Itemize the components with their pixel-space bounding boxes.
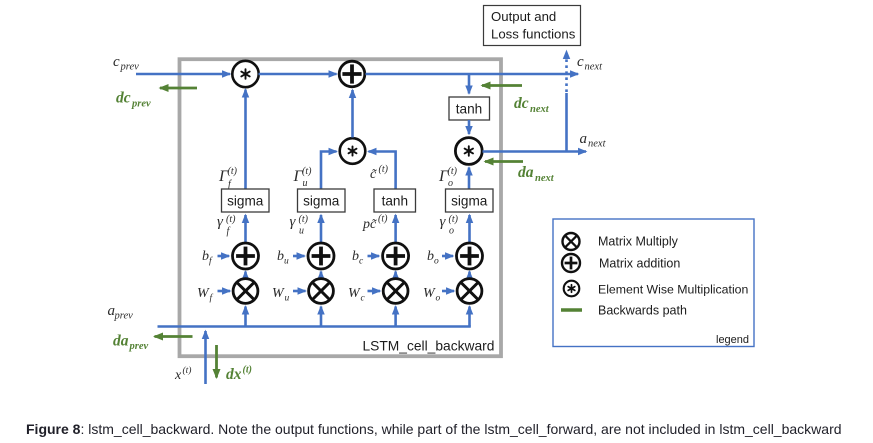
svg-text:γ(t)f: γ(t)f bbox=[217, 214, 236, 237]
cell box LSTM_cell_backward border bbox=[180, 59, 502, 356]
svg-text:sigma: sigma bbox=[303, 194, 340, 209]
box tanh (output path) bbox=[449, 97, 490, 120]
svg-text:c̃(t): c̃(t) bbox=[370, 164, 389, 182]
wire add_c up to tanh_c bbox=[394, 215, 397, 243]
legend backwards path symbol bbox=[561, 308, 582, 312]
legend box bbox=[553, 219, 754, 347]
wire sigma_f up to forget multiply bbox=[244, 90, 247, 190]
svg-text:tanh: tanh bbox=[456, 102, 482, 117]
wire W_u into multiply node bbox=[293, 290, 306, 293]
op-amp element-wise multiply node (forget) bbox=[232, 61, 258, 87]
svg-text:Wc: Wc bbox=[348, 286, 366, 304]
wire mult_c up to add_c bbox=[394, 272, 397, 279]
wire c_next branch down to a_next line bbox=[565, 93, 568, 152]
op-amp matrix multiply node W_f bbox=[233, 279, 258, 304]
wire b_f into add node bbox=[218, 255, 230, 258]
svg-text:Γ(t)f: Γ(t)f bbox=[218, 166, 238, 190]
legend matrix multiply symbol bbox=[563, 233, 580, 250]
backwards path arrow da_next bbox=[485, 160, 523, 163]
backwards path arrow da_prev bbox=[155, 335, 193, 338]
svg-text:sigma: sigma bbox=[227, 194, 264, 209]
wire tanh_c up and into middle multiply bbox=[369, 152, 396, 190]
legend matrix addition symbol bbox=[562, 254, 580, 272]
wire a line up into mult_o bbox=[468, 307, 471, 327]
svg-text:sigma: sigma bbox=[451, 194, 488, 209]
wire b_u into add node bbox=[293, 255, 305, 258]
op-amp matrix addition node b_o bbox=[457, 243, 483, 269]
svg-text:γ(t)o: γ(t)o bbox=[440, 214, 459, 237]
op-amp matrix multiply node W_c bbox=[383, 279, 408, 304]
svg-text:Wo: Wo bbox=[423, 286, 441, 304]
svg-text:Backwards path: Backwards path bbox=[598, 304, 687, 318]
svg-text:legend: legend bbox=[716, 334, 749, 346]
wire a_next output bbox=[483, 150, 587, 153]
box Output and Loss functions bbox=[484, 6, 581, 46]
wire b_o into add node bbox=[442, 255, 453, 258]
wire W_c into multiply node bbox=[368, 290, 381, 293]
box tanh candidate bbox=[374, 189, 416, 212]
wire c_prev to multiply node bbox=[136, 73, 230, 76]
wire a_prev horizontal line bbox=[158, 325, 471, 328]
wire c line down into tanh bbox=[468, 74, 471, 94]
wire a line up into mult_f bbox=[244, 307, 247, 327]
backwards path arrow dx bbox=[215, 345, 218, 378]
wire x input vertical bbox=[204, 331, 207, 384]
wire tanh down into output multiply bbox=[468, 120, 471, 134]
svg-text:Element Wise Multiplication: Element Wise Multiplication bbox=[598, 283, 749, 297]
wire add node to c_next output bbox=[366, 73, 579, 76]
backwards path arrow dc_next bbox=[482, 84, 522, 87]
wire add_u up to sigma_u bbox=[320, 215, 323, 243]
svg-text:Γ(t)o: Γ(t)o bbox=[438, 166, 458, 189]
svg-text:bc: bc bbox=[352, 249, 364, 267]
svg-text:Output and: Output and bbox=[491, 9, 556, 24]
svg-text:Wu: Wu bbox=[272, 286, 290, 304]
svg-text:bf: bf bbox=[202, 249, 213, 267]
wire b_c into add node bbox=[368, 255, 380, 258]
wire middle multiply up to addition node bbox=[351, 90, 354, 138]
svg-text:Loss functions: Loss functions bbox=[491, 27, 576, 42]
op-amp matrix multiply node W_u bbox=[309, 279, 334, 304]
svg-text:dx(t): dx(t) bbox=[226, 365, 252, 384]
op-amp matrix addition node b_c bbox=[383, 243, 409, 269]
wire a line up into mult_u bbox=[320, 307, 323, 327]
wire add_f up to sigma_f bbox=[244, 215, 247, 243]
svg-text:aprev: aprev bbox=[108, 303, 134, 322]
svg-text:tanh: tanh bbox=[382, 194, 408, 209]
svg-text:Wf: Wf bbox=[197, 286, 214, 304]
svg-text:dcnext: dcnext bbox=[514, 95, 550, 115]
box sigma update gate bbox=[298, 189, 346, 212]
svg-text:bo: bo bbox=[427, 249, 439, 267]
wire mult_u up to add_u bbox=[320, 272, 323, 279]
svg-text:cnext: cnext bbox=[577, 54, 603, 73]
op-amp element-wise multiply node (output) bbox=[455, 138, 482, 165]
op-amp matrix addition node (cell update) bbox=[339, 61, 365, 87]
op-amp element-wise multiply node (middle) bbox=[340, 138, 366, 164]
wire W_f into multiply node bbox=[218, 290, 231, 293]
op-amp matrix addition node b_u bbox=[308, 243, 334, 269]
wire sigma_o up to output multiply bbox=[468, 168, 471, 190]
svg-text:Matrix Multiply: Matrix Multiply bbox=[598, 235, 679, 249]
box sigma output gate bbox=[446, 189, 494, 212]
wire multiply to add node bbox=[259, 73, 337, 76]
svg-text:cprev: cprev bbox=[113, 54, 139, 73]
wire mult_o up to add_o bbox=[468, 272, 471, 279]
wire W_o into multiply node bbox=[442, 290, 454, 293]
svg-text:γ(t)u: γ(t)u bbox=[290, 214, 309, 237]
svg-text:Figure 8: lstm_cell_backward.: Figure 8: lstm_cell_backward. Note the o… bbox=[26, 421, 842, 437]
backwards path arrow dc_prev bbox=[160, 87, 197, 90]
svg-text:bu: bu bbox=[277, 249, 289, 267]
svg-text:Matrix addition: Matrix addition bbox=[599, 257, 680, 271]
wire dashed up to output/loss box bbox=[565, 51, 568, 92]
svg-text:x(t): x(t) bbox=[174, 365, 191, 383]
legend element wise multiplication symbol bbox=[564, 281, 580, 297]
svg-text:Γ(t)u: Γ(t)u bbox=[293, 166, 313, 189]
svg-text:anext: anext bbox=[580, 131, 607, 150]
wire mult_f up to add_f bbox=[244, 272, 247, 279]
box sigma forget gate bbox=[222, 189, 270, 212]
svg-text:danext: danext bbox=[518, 164, 555, 184]
svg-text:dcprev: dcprev bbox=[116, 90, 151, 110]
wire add_o up to sigma_o bbox=[468, 215, 471, 243]
svg-text:LSTM_cell_backward: LSTM_cell_backward bbox=[363, 339, 495, 354]
op-amp matrix multiply node W_o bbox=[457, 279, 482, 304]
svg-text:pc̃(t): pc̃(t) bbox=[362, 214, 388, 233]
op-amp matrix addition node b_f bbox=[233, 243, 259, 269]
wire sigma_u up and into middle multiply bbox=[321, 152, 337, 190]
svg-text:daprev: daprev bbox=[113, 333, 148, 353]
wire a line up into mult_c bbox=[394, 307, 397, 327]
